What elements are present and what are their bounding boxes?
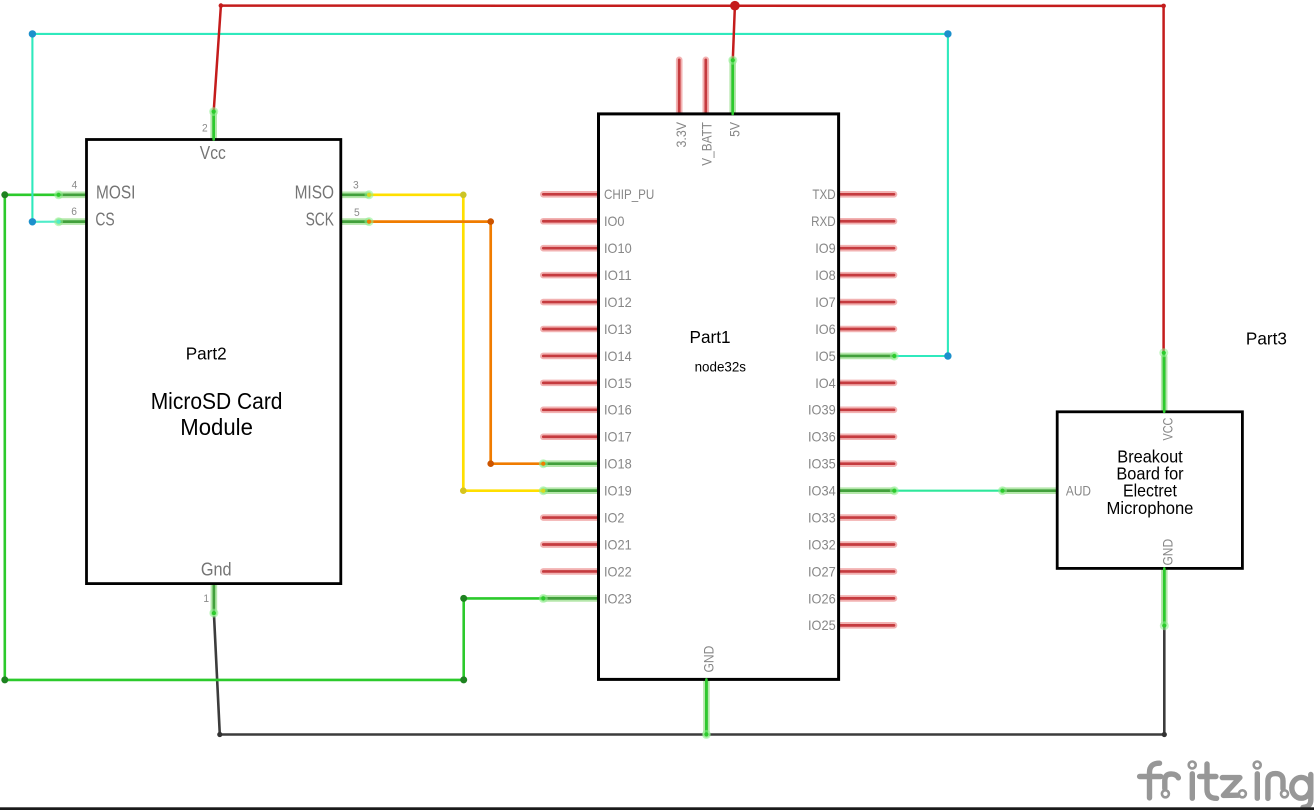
svg-text:RXD: RXD bbox=[811, 213, 836, 229]
svg-text:IO19: IO19 bbox=[604, 483, 632, 499]
pin Part1 GND bbox=[703, 677, 710, 734]
pin Part2 4 MOSI bbox=[59, 192, 87, 199]
bottom border bar bbox=[0, 807, 1314, 810]
title Breakout Board for Electret Microphone bbox=[1107, 446, 1194, 518]
pin Part1 5V bbox=[729, 60, 736, 116]
svg-text:IO8: IO8 bbox=[815, 267, 836, 283]
pin Part1 IO23 bbox=[543, 595, 600, 602]
svg-text:V_BATT: V_BATT bbox=[698, 122, 714, 166]
svg-text:2: 2 bbox=[202, 122, 208, 134]
pin Part1 V_BATT bbox=[702, 60, 709, 116]
part Part2 MicroSD Card Module box bbox=[87, 140, 341, 584]
svg-text:Part3: Part3 bbox=[1246, 328, 1287, 348]
pin Part1 IO35 bbox=[837, 460, 894, 467]
svg-text:node32s: node32s bbox=[695, 358, 746, 374]
pin Part2 1 Gnd bbox=[211, 584, 218, 614]
svg-text:4: 4 bbox=[72, 179, 78, 191]
svg-text:MISO: MISO bbox=[295, 183, 334, 203]
svg-text:IO35: IO35 bbox=[808, 456, 836, 472]
svg-text:AUD: AUD bbox=[1066, 482, 1091, 498]
wire endpoint marker 5V bbox=[728, 56, 737, 65]
bendpoint red left bbox=[219, 3, 224, 8]
svg-text:VCC: VCC bbox=[1159, 418, 1175, 441]
bendpoint turquoise top-right bbox=[944, 30, 951, 37]
pin Part1 IO27 bbox=[837, 568, 894, 575]
wire red power to 5V bbox=[733, 6, 735, 60]
wire green 5V drop bbox=[731, 60, 734, 114]
svg-text:1: 1 bbox=[203, 593, 209, 605]
pin Part1 TXD bbox=[837, 191, 894, 198]
wire green MOSI to IO23 bbox=[5, 195, 544, 680]
svg-text:Gnd: Gnd bbox=[201, 559, 232, 579]
svg-text:IO15: IO15 bbox=[604, 375, 632, 391]
pin Part1 IO36 bbox=[837, 433, 894, 440]
pin Part1 IO39 bbox=[837, 407, 894, 414]
pin Part1 IO13 bbox=[543, 326, 600, 333]
svg-text:IO4: IO4 bbox=[815, 375, 836, 391]
svg-text:6: 6 bbox=[71, 206, 77, 218]
wire endpoint marker IO18 bbox=[539, 459, 548, 468]
svg-text:IO22: IO22 bbox=[604, 563, 632, 579]
svg-text:IO5: IO5 bbox=[815, 348, 836, 364]
svg-text:IO17: IO17 bbox=[604, 429, 632, 445]
svg-text:IO27: IO27 bbox=[808, 563, 836, 579]
svg-text:IO33: IO33 bbox=[808, 509, 836, 525]
wire green mic GND drop bbox=[1163, 568, 1166, 625]
pin Part2 6 CS bbox=[59, 218, 87, 225]
wire endpoint marker IO34 bbox=[890, 486, 899, 495]
bendpoint green bottom-left bbox=[1, 676, 8, 683]
svg-text:GND: GND bbox=[1159, 539, 1175, 566]
wire green Part2 Vcc stub bbox=[212, 112, 215, 140]
junction red power (large) bbox=[730, 1, 740, 11]
wire gnd bus horizontal bbox=[220, 733, 1165, 736]
wire red power to mic VCC bbox=[1162, 6, 1165, 352]
wire endpoint marker IO19 bbox=[539, 486, 548, 495]
wire endpoint marker mic AUD bbox=[998, 486, 1007, 495]
pin Part1 IO4 bbox=[837, 380, 894, 387]
junction gnd corner left bbox=[217, 732, 222, 737]
pin Part1 IO9 bbox=[837, 245, 894, 252]
svg-text:IO11: IO11 bbox=[604, 267, 632, 283]
pin Part3 GND bbox=[1161, 568, 1168, 623]
pin Part3 AUD bbox=[1003, 487, 1058, 494]
svg-text:3.3V: 3.3V bbox=[673, 121, 689, 147]
svg-text:IO7: IO7 bbox=[815, 294, 836, 310]
pin Part1 IO34 bbox=[837, 487, 894, 494]
svg-text:IO21: IO21 bbox=[604, 536, 632, 552]
pin Part1 IO33 bbox=[837, 514, 894, 521]
junction gnd corner right bbox=[1162, 732, 1167, 737]
pin Part1 IO2 bbox=[543, 514, 600, 521]
bendpoint orange at IO18 bbox=[487, 460, 494, 467]
wire endpoint marker SCK bbox=[365, 217, 374, 226]
pin Part1 IO12 bbox=[543, 299, 600, 306]
svg-text:Module: Module bbox=[180, 414, 253, 440]
wire endpoint marker MISO bbox=[365, 190, 374, 199]
wire red power to Part2 Vcc bbox=[214, 6, 221, 112]
svg-text:IO18: IO18 bbox=[604, 456, 632, 472]
wire gnd Part2 to bus (slanted) bbox=[214, 613, 220, 734]
pin Part1 IO22 bbox=[543, 568, 600, 575]
svg-text:IO14: IO14 bbox=[604, 348, 632, 364]
svg-text:IO2: IO2 bbox=[604, 509, 625, 525]
pin Part1 IO0 bbox=[543, 218, 600, 225]
svg-text:MOSI: MOSI bbox=[96, 183, 135, 203]
pin Part1 IO17 bbox=[543, 433, 600, 440]
wire orange SCK to IO18 bbox=[369, 222, 544, 464]
svg-text:Part1: Part1 bbox=[690, 327, 731, 347]
wire spring-green IO34 to AUD bbox=[894, 490, 1002, 492]
pin Part1 IO7 bbox=[837, 299, 894, 306]
wire endpoint marker Part2 Gnd bbox=[209, 609, 218, 618]
pin Part1 IO32 bbox=[837, 541, 894, 548]
wire endpoint marker MOSI bbox=[54, 190, 63, 199]
bendpoint yellow at IO19 bbox=[460, 487, 467, 494]
wire endpoint marker Part2 Vcc bbox=[209, 107, 218, 116]
bendpoint green MOSI corner bbox=[1, 191, 8, 198]
wire endpoint marker CS bbox=[54, 217, 63, 226]
wire turquoise CS to IO5 bbox=[32, 34, 948, 356]
svg-text:IO13: IO13 bbox=[604, 321, 632, 337]
pin Part1 IO18 bbox=[543, 460, 600, 467]
pin Part1 IO21 bbox=[543, 541, 600, 548]
svg-text:SCK: SCK bbox=[306, 210, 334, 230]
pin Part1 IO14 bbox=[543, 353, 600, 360]
pin Part1 IO5 bbox=[837, 353, 894, 360]
wire yellow MISO to IO19 bbox=[369, 195, 544, 491]
pin Part1 RXD bbox=[837, 218, 894, 225]
wire endpoint marker IO5 bbox=[890, 352, 899, 361]
wire green mic VCC drop bbox=[1163, 353, 1166, 412]
bendpoint yellow top bbox=[460, 192, 467, 199]
svg-text:CHIP_PU: CHIP_PU bbox=[604, 186, 654, 202]
svg-text:IO39: IO39 bbox=[808, 402, 836, 418]
svg-text:5: 5 bbox=[354, 207, 360, 219]
pin Part1 IO26 bbox=[837, 595, 894, 602]
svg-text:IO23: IO23 bbox=[604, 590, 632, 606]
svg-text:GND: GND bbox=[700, 646, 716, 673]
pin Part1 IO25 bbox=[837, 622, 894, 629]
wire endpoint marker IO23 bbox=[539, 594, 548, 603]
bendpoint green at IO23 bbox=[460, 595, 467, 602]
wire endpoint marker mic VCC bbox=[1159, 348, 1168, 357]
pin Part2 3 MISO bbox=[341, 192, 369, 199]
svg-text:IO10: IO10 bbox=[604, 240, 632, 256]
svg-text:IO6: IO6 bbox=[815, 321, 836, 337]
svg-text:IO25: IO25 bbox=[808, 617, 836, 633]
pin Part1 IO16 bbox=[543, 407, 600, 414]
fritzing logo bbox=[1140, 763, 1311, 807]
part Part1 node32s box bbox=[599, 114, 839, 680]
pin Part1 3.3V bbox=[676, 60, 683, 116]
svg-text:IO9: IO9 bbox=[815, 240, 836, 256]
svg-text:Microphone: Microphone bbox=[1107, 498, 1194, 518]
svg-text:3: 3 bbox=[353, 179, 359, 191]
bendpoint turquoise at CS bbox=[29, 218, 36, 225]
svg-text:TXD: TXD bbox=[812, 186, 835, 202]
bendpoint green bottom mid bbox=[460, 676, 467, 683]
pin Part2 2 Vcc bbox=[210, 112, 217, 140]
pin Part1 IO8 bbox=[837, 272, 894, 279]
bendpoint orange top bbox=[487, 218, 494, 225]
wire gnd bus to mic GND bbox=[1163, 626, 1166, 735]
pin Part1 IO11 bbox=[543, 272, 600, 279]
bendpoint turquoise top-left bbox=[29, 30, 36, 37]
pin Part3 VCC bbox=[1161, 357, 1168, 412]
svg-text:IO16: IO16 bbox=[604, 402, 632, 418]
bendpoint red right bbox=[1161, 4, 1166, 9]
svg-text:IO12: IO12 bbox=[604, 294, 632, 310]
svg-text:5V: 5V bbox=[727, 121, 743, 136]
title MicroSD Card Module bbox=[151, 388, 283, 440]
wire red power top horizontal bbox=[221, 4, 1164, 7]
wire turquoise CS stub bbox=[32, 221, 58, 223]
svg-text:MicroSD Card: MicroSD Card bbox=[151, 388, 283, 414]
svg-text:IO36: IO36 bbox=[808, 429, 836, 445]
svg-text:IO26: IO26 bbox=[808, 590, 836, 606]
pin Part1 IO6 bbox=[837, 326, 894, 333]
svg-text:Part2: Part2 bbox=[186, 343, 227, 363]
pin Part1 IO10 bbox=[543, 245, 600, 252]
wire green Part1 GND drop bbox=[705, 679, 708, 734]
svg-text:IO34: IO34 bbox=[808, 483, 836, 499]
wire endpoint marker mic GND bbox=[1160, 621, 1169, 630]
bendpoint turquoise at IO5 bbox=[944, 352, 951, 359]
svg-text:IO0: IO0 bbox=[604, 213, 625, 229]
svg-text:Vcc: Vcc bbox=[200, 143, 226, 163]
svg-text:CS: CS bbox=[95, 210, 114, 230]
part Part3 Breakout Board for Electret Microphone box bbox=[1057, 412, 1242, 569]
svg-text:IO32: IO32 bbox=[808, 536, 836, 552]
pin Part1 IO19 bbox=[543, 487, 600, 494]
wire endpoint marker Part1 GND bbox=[702, 730, 711, 739]
pin Part1 CHIP_PU bbox=[543, 191, 600, 198]
pin Part2 5 SCK bbox=[341, 218, 369, 225]
pin Part1 IO15 bbox=[543, 380, 600, 387]
